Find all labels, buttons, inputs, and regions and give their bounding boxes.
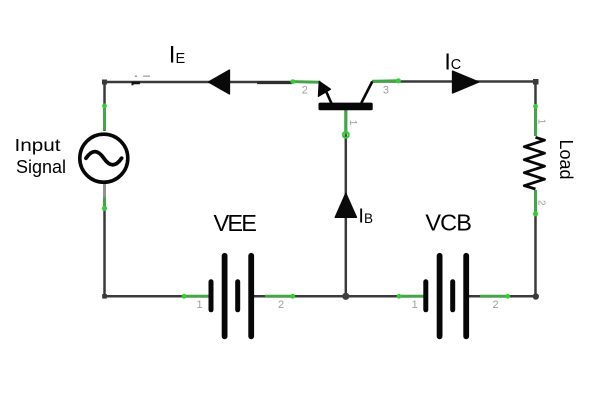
svg-text:IC: IC	[444, 49, 461, 75]
svg-text:Input: Input	[15, 135, 62, 155]
pin wire: VEE pin 2 (green)	[265, 295, 293, 298]
svg-text:1: 1	[412, 299, 418, 311]
pin wire: load pin 2 (green)	[534, 190, 537, 214]
wire: right vertical lower (load to bottom corner)	[534, 190, 537, 297]
svg-text:1: 1	[196, 299, 202, 311]
svg-text:VCB: VCB	[425, 210, 471, 236]
svg-text:Signal: Signal	[16, 157, 66, 177]
pin dot: load pin 2 end	[533, 211, 538, 216]
battery VCB short bar 1	[423, 282, 428, 310]
battery VEE long bar 1	[222, 256, 228, 336]
arrow IC (pointing right)	[453, 71, 479, 93]
source V1 sine wave	[86, 152, 122, 165]
wire: top horizontal emitter side	[105, 81, 294, 84]
pin wire: VCB pin 1 (green)	[399, 295, 426, 298]
svg-text:2: 2	[302, 84, 308, 96]
battery VEE long bar 2	[248, 256, 254, 336]
pin dot: collector wire end	[396, 78, 401, 83]
resistor Load zigzag	[524, 137, 544, 189]
arrow IE (pointing left)	[209, 70, 230, 94]
svg-text:Load: Load	[556, 139, 576, 179]
source V1 circle	[80, 134, 128, 182]
battery VCB long bar 1	[437, 256, 443, 336]
pin wire: transistor collector pin 3 (green)	[372, 79, 398, 83]
transistor Q1 collector lead	[361, 82, 372, 104]
pin wire: load pin 1 (green)	[534, 106, 537, 136]
wire: top horizontal collector side	[372, 80, 536, 83]
wire: emitter lead overlap segment	[257, 81, 292, 84]
svg-text:2: 2	[536, 200, 547, 206]
pin wire: transistor emitter pin 2 (green)	[293, 80, 321, 84]
node: top-left corner	[102, 80, 107, 85]
pin dot: VEE pin 1 end	[182, 294, 187, 299]
pin ring: base wire end	[343, 132, 349, 138]
node: bottom-left corner	[102, 294, 107, 299]
node: junction at base/battery net	[342, 293, 349, 300]
svg-text:2: 2	[492, 299, 498, 311]
svg-text:2: 2	[278, 299, 284, 311]
battery VCB long bar 2	[463, 256, 469, 336]
pin dot: load pin 1 end	[533, 104, 538, 109]
pin lead: source bottom gray stub	[103, 184, 105, 200]
svg-text:VEE: VEE	[214, 210, 257, 236]
svg-text:1: 1	[347, 120, 358, 126]
pin dot: VCB pin 2 end	[505, 294, 510, 299]
wire: bottom middle segment VEE to VCB through junction	[251, 295, 426, 298]
svg-text:1: 1	[536, 119, 547, 125]
pin dot: VEE pin 2 end	[290, 294, 295, 299]
arrow IB (pointing up)	[335, 193, 356, 217]
erased gray dash A	[135, 76, 137, 77]
svg-text:IE: IE	[169, 42, 186, 69]
svg-text:3: 3	[383, 85, 389, 97]
pin wire: VCB pin 2 (green)	[480, 295, 508, 298]
svg-text:IB: IB	[358, 206, 373, 228]
pin dot: emitter wire end	[290, 79, 295, 84]
wire: bottom left segment to VEE	[104, 295, 212, 298]
battery VCB short bar 2	[450, 282, 455, 310]
pin wire: VEE pin 1 (green)	[184, 295, 211, 298]
transistor Q1 emitter lead	[326, 90, 332, 104]
erased black blob on wire	[132, 82, 140, 85]
pin wire: source bottom pin (green)	[103, 198, 106, 210]
wire: base vertical (transistor to junction)	[345, 110, 348, 296]
pin dot: VCB pin 1 end	[397, 294, 402, 299]
erased gray dash B	[143, 76, 150, 77]
wire: left vertical lower (source to bottom corner)	[103, 184, 106, 297]
wire: right vertical upper (top corner to load)	[534, 82, 537, 137]
battery VEE short bar 1	[209, 282, 214, 310]
battery VEE short bar 2	[235, 282, 240, 310]
node: top-right corner	[533, 79, 539, 85]
wire: bottom right segment VCB to corner	[466, 295, 536, 298]
pin dot: source bottom	[102, 206, 107, 211]
transistor Q1 emitter arrowhead	[318, 81, 330, 96]
pin dot: source top	[102, 103, 107, 108]
pin wire: source top pin (green)	[103, 106, 106, 131]
node: bottom-right corner	[533, 293, 539, 299]
wire: left vertical upper (source to top corner)	[103, 81, 106, 131]
pin wire: transistor base pin 1 (green)	[344, 110, 347, 135]
transistor Q1 base bar	[319, 103, 373, 111]
